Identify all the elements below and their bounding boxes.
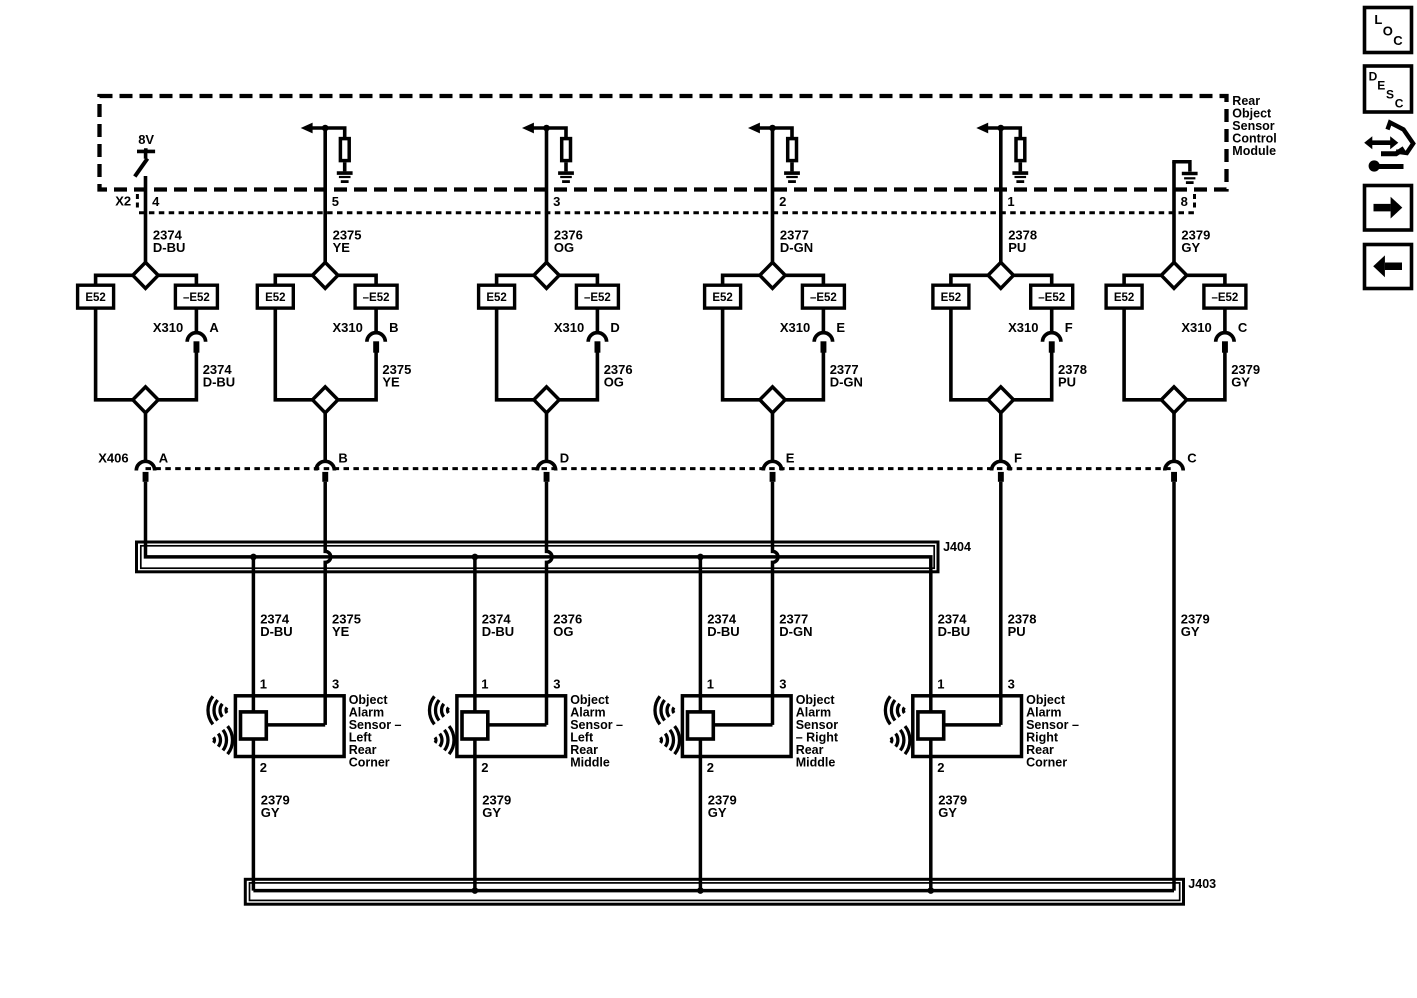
icon box: back arrow [1365, 245, 1412, 289]
svg-text:2: 2 [779, 194, 786, 209]
svg-text:–E52: –E52 [363, 292, 390, 304]
svg-text:Corner: Corner [349, 756, 390, 770]
node -E52 reference box [175, 285, 217, 308]
sensor B3 internal link pin3 to transducer [713, 723, 772, 727]
svg-text:3: 3 [1008, 677, 1015, 692]
value label 2375 YE (middle) [382, 362, 411, 389]
svg-text:D-BU: D-BU [482, 624, 515, 639]
wire 2379 GY sensor B3 pin 2 down to J403 [699, 739, 703, 891]
svg-text:GY: GY [1231, 374, 1250, 389]
sensor B3 ultrasonic waves (upper) [655, 696, 674, 724]
splice diamond (upper) on 2376 [534, 262, 559, 288]
wire branch to -E52 [158, 275, 196, 285]
value label 2379 GY (below sensor B4) [938, 792, 967, 819]
svg-text:YE: YE [332, 624, 350, 639]
node -E52 reference box [802, 285, 844, 308]
object alarm sensor B2 box (Object Alarm Sensor - Left Rear Middle) [457, 696, 566, 757]
svg-text:L: L [1374, 12, 1382, 27]
svg-text:2: 2 [937, 760, 944, 775]
wire branch to E52 [723, 275, 760, 285]
splice bus J403 (inner) [250, 883, 1180, 901]
wire E52 down to splice (left leg) [1124, 308, 1161, 400]
value label 2378 PU (middle) [1058, 362, 1087, 389]
wire 2374 D-BU: X406 A into J404 splice run, exits right end to sensor pin 1 [146, 482, 931, 712]
svg-text:D-BU: D-BU [260, 624, 293, 639]
connector X406 terminal A (arc + terminal) [136, 461, 154, 481]
svg-text:1: 1 [707, 677, 714, 692]
value label 2378 PU (upper) [1008, 227, 1037, 254]
svg-text:1: 1 [937, 677, 944, 692]
connector X310 terminal D (arc + terminal) [588, 333, 606, 353]
icon box: forward arrow [1365, 186, 1412, 231]
value label 2379 GY (upper) [1181, 227, 1210, 254]
ground symbol (module internal) on 2379 [1174, 162, 1198, 183]
svg-text:4: 4 [152, 194, 160, 209]
value label 2376 OG (middle) [604, 362, 633, 389]
svg-text:X310: X310 [780, 320, 810, 335]
value label 2374 D-BU (below J404) [938, 612, 971, 639]
sensor B4 name label [1026, 693, 1079, 770]
svg-text:8: 8 [1181, 194, 1188, 209]
connector X310 terminal A (arc + terminal) [187, 333, 205, 353]
sensor B3 pin 3 lead down to internal link [771, 696, 775, 725]
svg-text:GY: GY [708, 805, 727, 820]
wire splice down to connector X406 C [1172, 413, 1176, 461]
connector X2 left divider [136, 194, 139, 210]
svg-text:C: C [1393, 33, 1403, 48]
icon box DESC [1365, 66, 1412, 112]
svg-text:D-GN: D-GN [830, 374, 863, 389]
wire E52 down to splice (left leg) [96, 308, 133, 400]
svg-text:C: C [1395, 97, 1404, 111]
wire branch to -E52 [559, 275, 597, 285]
ground symbol (module internal) on 2376 [558, 162, 574, 181]
sensor B1 transducer square [241, 712, 267, 739]
value label 2379 GY (below sensor B2) [482, 792, 511, 819]
svg-text:1: 1 [260, 677, 267, 692]
node E52 reference box [78, 285, 114, 308]
internal pull-up: arrow + resistor + ground for circuit 2375 [301, 123, 345, 137]
junction dot on J404 run, tap to sensor pin 1 [472, 554, 479, 561]
splice diamond (upper) on 2374 [133, 262, 158, 288]
svg-text:X310: X310 [1181, 320, 1211, 335]
wire splice down to connector X406 E [771, 413, 775, 461]
svg-text:PU: PU [1058, 374, 1076, 389]
sensor B2 transducer square [462, 712, 488, 739]
value label 2377 D-GN (below J404) [779, 612, 812, 639]
connector X406 terminal C (arc + terminal) [1165, 461, 1183, 481]
value label 2376 OG (upper) [554, 227, 583, 254]
svg-text:X310: X310 [153, 320, 183, 335]
svg-text:GY: GY [482, 805, 501, 820]
wire splice down to connector X406 B [323, 413, 327, 461]
wire X310 E down to splice (right leg) [785, 353, 823, 400]
wire from -E52 to connector X310 E [822, 308, 826, 332]
value label 2374 D-BU (below J404) [707, 612, 740, 639]
internal pull-up: arrow + resistor + ground for circuit 2377 [748, 123, 792, 137]
connector X406 terminal F (arc + terminal) [992, 461, 1010, 482]
sensor B2 internal link pin3 to transducer [488, 723, 547, 727]
svg-text:D-BU: D-BU [203, 374, 236, 389]
svg-text:X406: X406 [98, 450, 128, 465]
value label 2376 OG (below J404) [553, 612, 582, 639]
svg-text:PU: PU [1008, 240, 1026, 255]
junction dot on J404 run, tap to sensor pin 1 [697, 554, 704, 561]
junction dot circuit 2376 [543, 125, 550, 132]
sensor B1 pin 1 lead into transducer [252, 696, 256, 712]
wire X310 D down to splice (right leg) [559, 353, 597, 400]
sensor B3 transducer square [688, 712, 714, 739]
wire from -E52 to connector X310 F [1050, 308, 1054, 332]
wire branch to -E52 [1187, 275, 1225, 285]
svg-text:8V: 8V [138, 132, 154, 147]
svg-text:J404: J404 [943, 540, 971, 554]
svg-text:F: F [1014, 450, 1022, 465]
junction dot on J403 run [472, 887, 479, 894]
svg-text:1: 1 [1007, 194, 1014, 209]
svg-text:–E52: –E52 [1211, 292, 1238, 304]
icon box LOC [1365, 8, 1412, 53]
resistor (module internal) on 2375 [340, 139, 349, 161]
value label 2375 YE (below J404) [332, 612, 361, 639]
sensor B3 ultrasonic waves (lower) [661, 726, 680, 754]
wire 2376 OG: X406 D down, hops over J404 run, to sensor pin 3 [547, 482, 553, 725]
svg-text:A: A [159, 450, 169, 465]
wire 2375 YE from module pin 5 down to splice [323, 128, 327, 262]
connector X310 terminal B (arc + terminal) [367, 333, 385, 353]
svg-text:E52: E52 [265, 292, 285, 304]
sensor B3 pin 1 lead into transducer [699, 696, 703, 712]
svg-text:E52: E52 [1114, 292, 1134, 304]
splice bus J403 (outer) [245, 879, 1183, 904]
node -E52 reference box [576, 285, 618, 308]
svg-text:D: D [560, 450, 569, 465]
sensor B1 internal link pin3 to transducer [266, 723, 325, 727]
node: Rear Object Sensor Control Module dashed boundary [100, 96, 1227, 190]
svg-text:X2: X2 [115, 194, 131, 209]
connector X310 terminal E (arc + terminal) [814, 333, 832, 353]
svg-text:–E52: –E52 [183, 292, 210, 304]
svg-text:GY: GY [1181, 240, 1200, 255]
sensor B4 internal link pin3 to transducer [944, 723, 1001, 727]
object alarm sensor B4 box (Object Alarm Sensor - Right Rear Corner) [913, 696, 1022, 757]
wire 2379 GY: X406 C down to J403 splice run [1172, 482, 1176, 891]
svg-text:1: 1 [481, 677, 488, 692]
connector/splice bus J404 (outer) [137, 542, 939, 572]
svg-text:5: 5 [332, 194, 339, 209]
svg-text:OG: OG [554, 240, 574, 255]
sensor B2 pin 3 lead down to internal link [545, 696, 549, 725]
resistor (module internal) on 2376 [562, 139, 571, 161]
splice diamond (lower) on 2376 [534, 387, 559, 413]
value label 2377 D-GN (upper) [780, 227, 813, 254]
junction dot on J403 run [928, 887, 935, 894]
splice diamond (lower) on 2377 [760, 387, 785, 413]
wire branch to -E52 [1014, 275, 1052, 285]
svg-text:E: E [836, 320, 845, 335]
value label 2374 D-BU (below J404) [260, 612, 293, 639]
wire E52 down to splice (left leg) [275, 308, 312, 400]
svg-text:B: B [389, 320, 398, 335]
wire 2374 D-BU from module pin 4 down to splice [144, 176, 148, 262]
svg-text:Corner: Corner [1026, 756, 1067, 770]
node E52 reference box [479, 285, 515, 308]
wire branch to -E52 [338, 275, 376, 285]
node -E52 reference box [1204, 285, 1246, 308]
svg-text:A: A [209, 320, 219, 335]
wire 2379 GY sensor B1 pin 2 down to J403 [252, 739, 256, 891]
sensor B2 name label [570, 693, 623, 770]
wire splice down to connector X406 A [144, 413, 148, 461]
icon: route/detour arrow [1364, 123, 1413, 172]
wire 2374 D-BU tap down to sensor pin 1 [252, 557, 256, 712]
object alarm sensor B3 box (Object Alarm Sensor - Right Rear Middle) [682, 696, 791, 757]
sensor B4 pin 1 lead into transducer [929, 696, 933, 712]
wire E52 down to splice (left leg) [723, 308, 760, 400]
wire X310 C down to splice (right leg) [1187, 353, 1225, 400]
connector X406 terminal E (arc + terminal) [763, 461, 781, 482]
wire E52 down to splice (left leg) [497, 308, 534, 400]
splice diamond (lower) on 2378 [988, 387, 1013, 413]
wire from -E52 to connector X310 A [195, 308, 199, 332]
sensor B4 pin 3 lead down to internal link [999, 696, 1003, 725]
svg-text:–E52: –E52 [1038, 292, 1065, 304]
svg-text:2: 2 [481, 760, 488, 775]
splice diamond (upper) on 2378 [988, 262, 1013, 288]
svg-text:Module: Module [1232, 144, 1276, 158]
svg-text:E52: E52 [486, 292, 506, 304]
resistor (module internal) on 2377 [788, 139, 797, 161]
node E52 reference box [1106, 285, 1142, 308]
sensor B2 ultrasonic waves (upper) [429, 696, 448, 724]
svg-text:YE: YE [382, 374, 400, 389]
wire X310 A down to splice (right leg) [158, 353, 196, 400]
value label 2375 YE (upper) [333, 227, 362, 254]
junction dot circuit 2378 [998, 125, 1005, 132]
svg-text:Middle: Middle [570, 756, 610, 770]
svg-text:GY: GY [261, 805, 280, 820]
wire 2376 OG from module pin 3 down to splice [545, 128, 549, 262]
wire branch to E52 [951, 275, 988, 285]
svg-text:3: 3 [779, 677, 786, 692]
value label 2378 PU (below J404) [1008, 612, 1037, 639]
splice diamond (lower) on 2375 [313, 387, 338, 413]
wire from -E52 to connector X310 C [1223, 308, 1227, 332]
internal pull-up: arrow + resistor + ground for circuit 2378 [976, 123, 1020, 137]
internal pull-up: arrow + resistor + ground for circuit 2376 [522, 123, 566, 137]
sensor B1 ultrasonic waves (lower) [214, 726, 233, 754]
svg-text:3: 3 [332, 677, 339, 692]
switch SW1 (8V feed) inside module [135, 148, 155, 176]
wire branch to E52 [1124, 275, 1161, 285]
svg-text:GY: GY [1181, 624, 1200, 639]
svg-text:X310: X310 [554, 320, 584, 335]
svg-text:C: C [1238, 320, 1248, 335]
node -E52 reference box [1031, 285, 1073, 308]
sensor B3 name label [796, 693, 839, 770]
svg-text:2: 2 [707, 760, 714, 775]
wire 2378 PU from module pin 1 down to splice [999, 128, 1003, 262]
wire 2379 GY sensor B2 pin 2 down to J403 [473, 739, 477, 891]
wire splice down to connector X406 D [545, 413, 549, 461]
svg-text:Middle: Middle [796, 756, 836, 770]
splice diamond (lower) on 2379 [1161, 387, 1186, 413]
wire from -E52 to connector X310 D [596, 308, 600, 332]
wire 2379 GY sensor B4 pin 2 down to J403 [929, 739, 933, 891]
wire branch to -E52 [785, 275, 823, 285]
sensor B1 pin 3 lead down to internal link [323, 696, 327, 725]
svg-text:GY: GY [938, 805, 957, 820]
svg-text:PU: PU [1008, 624, 1026, 639]
junction dot circuit 2375 [322, 125, 329, 132]
sensor B2 pin 1 lead into transducer [473, 696, 477, 712]
svg-text:–E52: –E52 [584, 292, 611, 304]
value label 2374 D-BU (upper) [153, 227, 186, 254]
wire 2374 D-BU tap down to sensor pin 1 [473, 557, 477, 712]
svg-text:D-GN: D-GN [780, 240, 813, 255]
splice diamond (upper) on 2379 [1161, 262, 1186, 288]
sensor B1 ultrasonic waves (upper) [208, 696, 227, 724]
svg-text:D-GN: D-GN [779, 624, 812, 639]
value label 2374 D-BU (middle) [203, 362, 236, 389]
connector X2 right divider [1193, 194, 1196, 210]
connector X406 terminal B (arc + terminal) [316, 461, 334, 481]
svg-text:–E52: –E52 [810, 292, 837, 304]
node E52 reference box [257, 285, 293, 308]
svg-text:YE: YE [333, 240, 351, 255]
svg-text:E: E [786, 450, 795, 465]
label: Rear Object Sensor Control Module [1232, 94, 1276, 158]
svg-text:OG: OG [604, 374, 624, 389]
splice diamond (upper) on 2375 [313, 262, 338, 288]
value label 2379 GY (middle) [1231, 362, 1260, 389]
svg-text:D-BU: D-BU [153, 240, 186, 255]
sensor B4 transducer square [918, 712, 944, 739]
svg-text:D-BU: D-BU [707, 624, 740, 639]
svg-text:J403: J403 [1188, 877, 1216, 891]
value label 2377 D-GN (middle) [830, 362, 863, 389]
object alarm sensor B1 box (Object Alarm Sensor - Left Rear Corner) [235, 696, 344, 757]
value label 2379 GY (below sensor B1) [261, 792, 290, 819]
node E52 reference box [933, 285, 969, 308]
svg-text:3: 3 [553, 194, 560, 209]
wire X310 F down to splice (right leg) [1014, 353, 1052, 400]
svg-text:C: C [1187, 450, 1197, 465]
wire splice down to connector X406 F [999, 413, 1003, 461]
wire 2377 D-GN from module pin 2 down to splice [771, 128, 775, 262]
connector X310 terminal F (arc + terminal) [1043, 333, 1061, 353]
connector X2 dotted line [139, 211, 1194, 214]
wire 2379 GY splice run inside J403 [253, 889, 1174, 893]
resistor (module internal) on 2378 [1016, 139, 1025, 161]
splice diamond (lower) on 2374 [133, 387, 158, 413]
wire 2378 PU: X406 F down to sensor 4 pin 3 [999, 482, 1003, 725]
wire branch to E52 [497, 275, 534, 285]
svg-text:X310: X310 [1008, 320, 1038, 335]
wire from -E52 to connector X310 B [374, 308, 378, 332]
svg-text:2: 2 [260, 760, 267, 775]
svg-text:X310: X310 [333, 320, 363, 335]
sensor B4 ultrasonic waves (upper) [885, 696, 904, 724]
junction dot on J403 run [697, 887, 704, 894]
node -E52 reference box [355, 285, 397, 308]
value label 2379 GY (below sensor B3) [708, 792, 737, 819]
connector X406 dotted line [146, 467, 1175, 470]
svg-text:B: B [338, 450, 347, 465]
connector X406 terminal D (arc + terminal) [537, 461, 555, 482]
svg-text:E: E [1377, 79, 1385, 93]
svg-text:E52: E52 [85, 292, 105, 304]
sensor B2 ultrasonic waves (lower) [435, 726, 454, 754]
wire 2377 D-GN: X406 E down, hops over J404 run, to sensor pin 3 [773, 482, 779, 725]
ground symbol (module internal) on 2377 [784, 162, 800, 181]
wire branch to E52 [275, 275, 312, 285]
connector/splice bus J404 (inner) [141, 546, 934, 568]
wire 2379 GY from module pin 8 down to splice [1172, 162, 1176, 263]
svg-text:S: S [1386, 88, 1394, 102]
value label 2379 GY (below J404) [1181, 612, 1210, 639]
svg-text:D-BU: D-BU [938, 624, 971, 639]
junction dot on J404 run, tap to sensor pin 1 [250, 554, 257, 561]
sensor B4 ultrasonic waves (lower) [891, 726, 910, 754]
svg-text:E52: E52 [941, 292, 961, 304]
junction dot circuit 2377 [769, 125, 776, 132]
wire X310 B down to splice (right leg) [338, 353, 376, 400]
svg-text:OG: OG [553, 624, 573, 639]
splice diamond (upper) on 2377 [760, 262, 785, 288]
svg-text:D: D [610, 320, 619, 335]
value label 2374 D-BU (below J404) [482, 612, 515, 639]
wire E52 down to splice (left leg) [951, 308, 988, 400]
ground symbol (module internal) on 2378 [1012, 162, 1028, 181]
ground symbol (module internal) on 2375 [337, 162, 353, 181]
wire branch to E52 [96, 275, 133, 285]
wire 2375 YE: X406 B down, hops over J404 run, to sensor pin 3 [325, 482, 331, 725]
sensor B1 name label [349, 693, 402, 770]
wire 2374 D-BU tap down to sensor pin 1 [699, 557, 703, 712]
svg-text:E52: E52 [712, 292, 732, 304]
node E52 reference box [705, 285, 741, 308]
svg-text:3: 3 [553, 677, 560, 692]
svg-text:F: F [1065, 320, 1073, 335]
svg-text:O: O [1383, 23, 1393, 38]
connector X310 terminal C (arc + terminal) [1216, 333, 1234, 353]
